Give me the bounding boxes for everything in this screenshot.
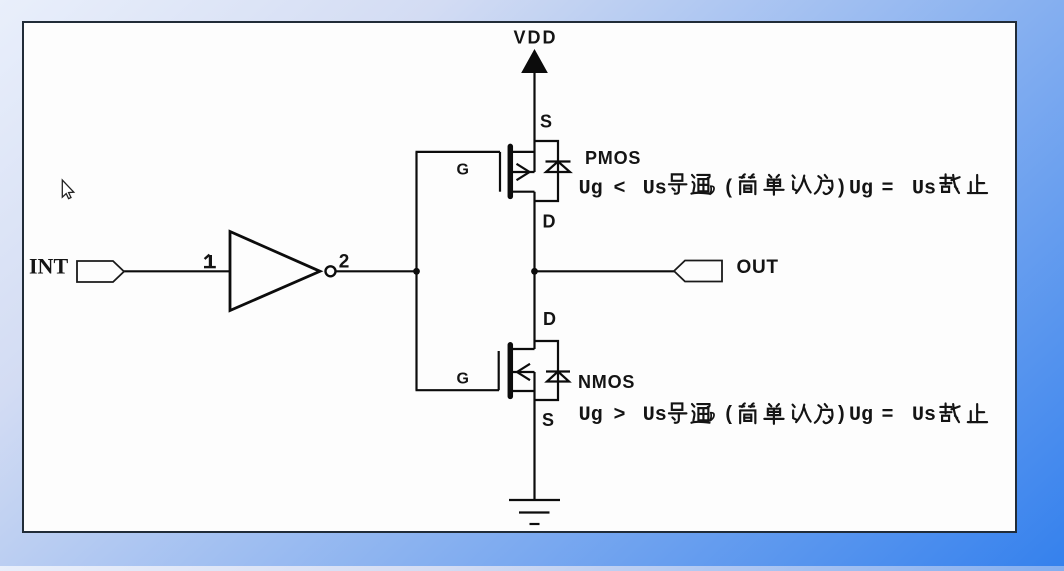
svg-text:INT: INT: [29, 254, 68, 279]
svg-text:G: G: [457, 161, 469, 178]
svg-text:>: >: [614, 404, 626, 427]
svg-text:Us: Us: [643, 404, 667, 427]
svg-text:Ug: Ug: [579, 404, 603, 427]
svg-text:D: D: [543, 309, 556, 329]
svg-text:VDD: VDD: [514, 27, 558, 47]
svg-text:): ): [835, 178, 847, 201]
svg-text:Us: Us: [912, 404, 936, 427]
svg-text:NMOS: NMOS: [578, 372, 635, 392]
svg-text:OUT: OUT: [737, 257, 779, 278]
svg-text:Ug: Ug: [579, 178, 603, 201]
svg-text:Ug: Ug: [849, 404, 873, 427]
svg-text:S: S: [540, 112, 552, 132]
svg-text:Ug: Ug: [849, 178, 873, 201]
svg-text:G: G: [457, 370, 469, 387]
svg-text:Us: Us: [912, 178, 936, 201]
svg-text:D: D: [543, 212, 556, 232]
svg-text:S: S: [542, 410, 554, 430]
svg-text:Us: Us: [643, 178, 667, 201]
svg-text:=: =: [882, 178, 894, 201]
svg-text:(: (: [723, 178, 735, 201]
svg-text:=: =: [882, 404, 894, 427]
svg-text:): ): [835, 404, 847, 427]
svg-text:<: <: [614, 178, 626, 201]
svg-text:PMOS: PMOS: [585, 148, 641, 168]
svg-text:(: (: [723, 404, 735, 427]
svg-text:2: 2: [339, 252, 350, 273]
